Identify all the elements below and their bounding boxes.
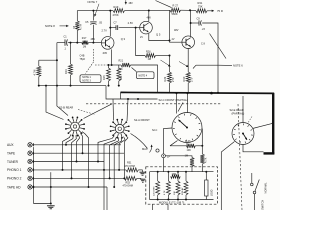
svg-text:NOTE 3: NOTE 3 — [82, 79, 91, 82]
wire S2-A curve right — [131, 134, 148, 149]
junction S2-C bus a — [176, 92, 178, 94]
leader NOTE 7 — [94, 4, 99, 17]
junction module R2 — [167, 171, 169, 173]
capacitor C1 — [65, 39, 67, 45]
svg-text:1M: 1M — [148, 58, 151, 61]
wire Q5 emitter — [149, 34, 170, 41]
wire loudness bottom — [205, 196, 207, 200]
junction fan2-5 — [118, 169, 120, 171]
leader S2-B — [78, 110, 95, 115]
wire S2-A fan 5 — [119, 137, 125, 170]
wire ground link — [34, 203, 51, 205]
wire S2-C up b — [187, 93, 189, 112]
wire module R3 bottom — [177, 195, 179, 200]
junction Q3 coll-C7 — [109, 27, 111, 29]
wire R26 left — [136, 28, 145, 56]
wire LP down to module — [163, 158, 165, 172]
svg-text:R19: R19 — [114, 5, 119, 9]
junction module R4 — [185, 171, 187, 173]
resistor R51 470 OHM — [126, 168, 138, 172]
resistor R15 — [107, 68, 111, 81]
wire S2-A fan 4 — [114, 137, 122, 187]
arrow supply pointer — [125, 0, 127, 4]
junction fan2-1 — [97, 161, 99, 163]
svg-text:560: 560 — [119, 75, 123, 80]
svg-text:NOTE 4: NOTE 4 — [139, 75, 148, 78]
junction rail-C5 — [92, 10, 94, 12]
wire R16 top — [118, 65, 120, 68]
capacitor C5 — [90, 22, 96, 24]
wire module R4 bottom — [185, 195, 187, 200]
junction C5-base node — [92, 42, 94, 44]
resistor R29 — [168, 72, 172, 83]
svg-text:Q 3: Q 3 — [121, 37, 126, 41]
resistor R16 — [117, 68, 121, 81]
svg-text:2.7V: 2.7V — [102, 29, 108, 33]
junction R13 top — [70, 42, 72, 44]
wire to Q3 base — [88, 42, 101, 44]
wire input vertical — [56, 43, 58, 86]
svg-text:2V: 2V — [140, 36, 143, 39]
wire R16 bottom — [118, 81, 120, 86]
wire S2-B fan 4 — [77, 135, 80, 162]
wire C1 left lead — [57, 42, 65, 44]
leader NOTE 6 — [218, 64, 232, 66]
wire R15 bottom — [108, 81, 110, 86]
jack TAPE HD — [28, 185, 34, 189]
wire to R29 — [169, 56, 171, 73]
wire supply rail left — [77, 10, 113, 12]
junction rail x70 — [70, 85, 72, 87]
svg-text:R17: R17 — [82, 37, 87, 40]
wire jack ground column 2 — [50, 172, 52, 203]
junction fan1 — [62, 169, 64, 171]
svg-text:TAPE HD: TAPE HD — [7, 185, 21, 189]
svg-text:75K: 75K — [198, 5, 203, 9]
svg-text:R21: R21 — [119, 59, 124, 62]
svg-text:4.7M: 4.7M — [32, 70, 36, 76]
resistor R27 560K — [170, 8, 181, 12]
junction R16 rail — [118, 85, 120, 87]
svg-text:48V: 48V — [91, 38, 96, 41]
junction rail-Q7 collector — [189, 9, 191, 11]
junction sw2 up — [127, 98, 129, 100]
wire S2-B fan 6 — [82, 132, 88, 187]
junction R15 — [108, 64, 110, 66]
jack TAPE — [28, 151, 34, 155]
wire ground rail — [39, 85, 106, 87]
wire Q3 collector — [109, 11, 111, 37]
resistor R17 — [82, 41, 89, 45]
wire R45 bottom — [38, 77, 40, 86]
resistor module R1 — [156, 181, 160, 195]
leader S2-E — [248, 117, 253, 124]
junction rail-Q5 — [148, 10, 150, 12]
wire Q5 collector — [148, 11, 150, 22]
terminal LP — [162, 154, 166, 158]
wire NOTE 6 hook — [193, 65, 196, 68]
wire R-43 left — [170, 145, 187, 147]
svg-text:.05: .05 — [99, 21, 103, 24]
wire S2-E to border — [253, 123, 273, 128]
svg-text:PHONO 2: PHONO 2 — [7, 177, 22, 181]
wire S2-C bottom contact — [186, 143, 188, 146]
wire C9 to bus — [202, 23, 218, 93]
switch S3 contacts — [251, 180, 260, 194]
junction fan2-4 — [113, 186, 115, 188]
leader arrow R30 — [179, 62, 189, 68]
wire R27 feedback vertical — [169, 10, 171, 40]
junction ground — [50, 203, 52, 205]
svg-text:R31: R31 — [198, 1, 203, 5]
wire switch down — [254, 194, 256, 210]
junction fan2-2 — [103, 169, 105, 171]
wire module bottom rail — [150, 199, 214, 201]
resistor R5 — [75, 21, 79, 31]
resistor R53 470 OHM — [124, 176, 136, 180]
junction ground row b — [33, 186, 35, 188]
svg-text:48V: 48V — [174, 29, 179, 32]
wire S2-A fan 3 — [110, 137, 119, 178]
junction R-43 — [201, 145, 203, 147]
wire R21 to bus corner — [131, 65, 158, 92]
wire row AUX — [32, 144, 121, 146]
note box 2 — [137, 72, 155, 79]
transistor Q7 — [182, 36, 195, 49]
svg-text:4.7K: 4.7K — [164, 190, 166, 195]
wire S2-B fan 1 — [63, 134, 72, 170]
junction Q3 emitter — [111, 64, 113, 66]
junction fan5 — [82, 152, 84, 154]
wire C5 top lead — [92, 11, 94, 21]
wire to S2-B contact a — [46, 86, 64, 120]
leader S2-C — [178, 103, 183, 112]
wire row TAPE — [32, 152, 124, 154]
wire C5 bottom lead — [92, 25, 94, 43]
module dashed box — [146, 167, 218, 204]
resistor module R4 — [184, 181, 188, 195]
svg-text:1M: 1M — [83, 46, 86, 49]
junction rail-Q3 — [109, 10, 111, 12]
wire S2-A fan 6 — [124, 135, 128, 178]
wire S2-A fan 2 — [104, 137, 116, 210]
dashed wire C4B — [95, 64, 112, 66]
wire R5 top lead — [76, 11, 78, 21]
wire module top rail — [150, 171, 214, 173]
loudness pot — [205, 180, 208, 196]
wire row PHONO 1 — [32, 169, 126, 171]
arrow NOTE 8 — [60, 25, 69, 27]
junction fan2-6 — [123, 177, 125, 179]
wire R1M into module — [191, 167, 193, 172]
diagonal leader Q7 — [210, 34, 227, 59]
svg-text:S2-A FRONT: S2-A FRONT — [134, 118, 150, 122]
svg-text:MODULE (TC-108 ?): MODULE (TC-108 ?) — [159, 201, 184, 205]
resistor R45 4.7K — [200, 154, 204, 164]
wire S2-C up a — [176, 93, 178, 113]
svg-text:2.5V: 2.5V — [128, 21, 134, 25]
wire NOTE 6 stub — [196, 64, 218, 66]
wire Q3 emitter — [111, 49, 113, 65]
resistor R21 4.7K — [121, 63, 131, 67]
svg-text:220 OHM: 220 OHM — [154, 186, 156, 196]
svg-text:R13: R13 — [64, 69, 68, 74]
junction loudness top — [205, 171, 207, 173]
dashed leader C4B — [86, 49, 94, 74]
wire R45 tee — [39, 59, 57, 61]
svg-text:75pF: 75pF — [80, 58, 86, 61]
jack AUX — [28, 143, 34, 147]
leader note box 2 — [132, 68, 137, 72]
junction module R3 — [177, 171, 179, 173]
resistor R 1M module — [190, 158, 194, 167]
note box 1 — [80, 75, 101, 83]
svg-text:NOTE 6: NOTE 6 — [233, 63, 243, 67]
wire R-43 diag — [170, 141, 178, 146]
wire LP to S2-C — [164, 128, 173, 154]
dashed gang linkage — [86, 103, 222, 105]
svg-text:AUX: AUX — [7, 143, 14, 147]
wire S2-A up b — [127, 99, 128, 121]
svg-text:4V: 4V — [172, 38, 175, 41]
svg-text:LOUD: LOUD — [211, 189, 213, 196]
svg-text:NOTE 8: NOTE 8 — [45, 24, 55, 28]
svg-text:48V: 48V — [129, 2, 134, 5]
transistor Q5 — [140, 21, 153, 34]
svg-text:R30: R30 — [182, 76, 186, 81]
resistor R45 1M — [37, 66, 41, 77]
svg-text:NOTE 7: NOTE 7 — [88, 0, 98, 4]
svg-text:4.7K: 4.7K — [204, 157, 208, 163]
junction tee — [56, 59, 58, 61]
wire S2-B fan 2 — [66, 135, 73, 145]
rotary switch S2-B REAR — [65, 117, 85, 137]
rotary switch S2-C — [172, 113, 202, 143]
junction S2-C bus b — [187, 92, 189, 94]
wire switch up — [251, 173, 253, 183]
junction emitter node — [169, 40, 171, 42]
wire module R3 top — [177, 172, 179, 181]
wire S2-B fan 3 — [72, 135, 77, 178]
wire ground drop — [106, 86, 158, 99]
wire Q7 collector — [190, 10, 192, 36]
wire R51 gnd stem — [142, 170, 144, 172]
junction border — [272, 122, 274, 124]
resistor R31 — [196, 9, 207, 13]
svg-text:1M: 1M — [185, 155, 188, 158]
wire rail to R31 — [181, 9, 197, 11]
junction Q5 base-R26 — [135, 27, 137, 29]
wire R15 top — [108, 65, 110, 68]
junction R5-C1 node — [76, 42, 78, 44]
transistor Q3 — [101, 37, 114, 50]
wire module exit 1 — [152, 204, 154, 210]
wire module R1 bottom — [157, 195, 159, 200]
svg-text:S2-E REAR: S2-E REAR — [230, 108, 244, 112]
junction R45-rail — [38, 85, 40, 87]
svg-text:TAPE: TAPE — [7, 152, 15, 156]
svg-text:C 8: C 8 — [201, 42, 206, 45]
wire loudness top — [205, 172, 207, 180]
junction module R4 btm — [185, 199, 187, 201]
junction fan3 — [71, 177, 73, 179]
junction ground row — [50, 186, 52, 188]
svg-text:R29: R29 — [163, 76, 167, 81]
wire S2-B diagonal — [84, 104, 113, 119]
rotary switch S2-E — [232, 123, 254, 145]
wire S2-A fan 1 — [98, 136, 114, 162]
svg-text:470-OHM: 470-OHM — [123, 185, 133, 188]
junction sw2 up b — [137, 98, 139, 100]
resistor module 1M horizontal — [171, 175, 181, 179]
wire S2-A up a — [112, 99, 115, 121]
junction R15 rail — [108, 85, 110, 87]
wire R45 to module — [201, 164, 203, 172]
wire R53 to gnd — [137, 177, 141, 179]
resistor module R3 — [176, 181, 180, 195]
wire jack ground column — [33, 147, 35, 203]
wire row TUNER — [32, 161, 104, 163]
wire module R4 top — [185, 172, 187, 181]
wire supply rail mid — [125, 9, 171, 11]
resistor R19 470K — [113, 9, 125, 13]
wire to S2-B contact b — [57, 86, 68, 116]
junction module R2 btm — [167, 199, 169, 201]
wire to R21 — [112, 64, 121, 66]
wire R13 bottom — [70, 75, 72, 86]
junction fan6 — [88, 186, 90, 188]
wire module R1 top — [157, 172, 159, 181]
wire C1 to R17 — [68, 42, 82, 44]
svg-text:TUNER: TUNER — [7, 160, 19, 164]
svg-text:R15: R15 — [102, 75, 106, 80]
junction fan2 — [65, 144, 67, 146]
wire S2-E left down — [221, 142, 234, 211]
dashed linkage vertical — [238, 104, 242, 210]
wire Q7 emitter — [187, 49, 189, 73]
svg-text:75 R: 75 R — [217, 9, 223, 13]
junction output-bus — [217, 92, 219, 94]
svg-text:470K: 470K — [113, 13, 119, 17]
border heavy vertical — [272, 93, 274, 154]
leader arrow R29 — [161, 60, 171, 67]
svg-text:270: 270 — [190, 77, 194, 82]
jack PHONO 1 — [28, 168, 34, 172]
wire module R2 bottom — [167, 195, 169, 200]
arrow to next stage — [207, 10, 214, 12]
svg-text:560K: 560K — [172, 12, 178, 16]
svg-text:LP: LP — [167, 154, 170, 158]
svg-text:(PARTIAL): (PARTIAL) — [232, 112, 245, 116]
svg-text:10K: 10K — [187, 149, 192, 152]
svg-text:MGLAY: MGLAY — [181, 187, 184, 195]
svg-text:1KM: 1KM — [172, 174, 177, 176]
wire R53 gnd stem — [141, 177, 143, 180]
resistor R13 — [69, 64, 73, 75]
wire R45 top — [38, 60, 40, 66]
svg-text:Q 5: Q 5 — [156, 33, 161, 37]
wire module left rail — [149, 172, 151, 200]
svg-text:S2-C: S2-C — [152, 130, 158, 132]
svg-text:R26: R26 — [146, 50, 151, 53]
junction module R1 — [157, 171, 159, 173]
svg-text:S2-B REAR: S2-B REAR — [59, 106, 73, 110]
svg-text:NORMAL: NORMAL — [264, 182, 268, 194]
ground R51 — [139, 172, 145, 175]
junction module R3 btm — [177, 199, 179, 201]
capacitor C7 — [116, 25, 118, 30]
svg-text:PHONO 1: PHONO 1 — [7, 168, 22, 172]
capacitor C9 — [199, 20, 201, 25]
svg-text:S2-C FRONT (PARTIAL): S2-C FRONT (PARTIAL) — [159, 98, 189, 102]
svg-text:SWITCH: SWITCH — [261, 200, 265, 210]
svg-text:R-43: R-43 — [185, 140, 191, 143]
resistor R26 1M — [145, 54, 156, 58]
wire to C7 — [110, 27, 116, 29]
wire to C9 — [191, 22, 199, 24]
resistor R-43 10K — [187, 144, 196, 148]
wire S2-E up — [242, 96, 244, 122]
resistor module R2 — [166, 181, 170, 195]
wire TAPE HD down — [106, 187, 108, 210]
resistor R30 — [186, 72, 190, 83]
wire row TAPE HD — [32, 186, 107, 188]
junction x46 — [45, 85, 47, 87]
junction R26-feedback — [169, 55, 171, 57]
wire S2-E down-right — [243, 145, 264, 152]
junction fan2-3 — [109, 177, 111, 179]
svg-text:R 27: R 27 — [173, 4, 179, 8]
junction rail x57 — [56, 85, 58, 87]
wire S2-B fan 5 — [80, 133, 82, 153]
jack TUNER — [28, 159, 34, 163]
junction bus big — [210, 92, 213, 95]
terminal MAX pot — [156, 149, 159, 152]
wire R-43 right — [195, 145, 202, 147]
wire LP to R 1M — [166, 156, 193, 158]
ground bus heavy — [121, 92, 275, 93]
rotary switch S2-A FRONT — [110, 119, 130, 139]
wire R30 to bus — [187, 83, 189, 93]
junction fan4 — [76, 161, 78, 163]
wire C7 to Q5 base — [119, 27, 140, 29]
wire R5 bottom lead — [76, 31, 78, 43]
pot wiper MAX — [150, 145, 152, 153]
wire module R2 top — [167, 172, 169, 181]
svg-text:4.7M: 4.7M — [79, 24, 83, 30]
wire bus step — [120, 92, 122, 99]
wire R26 right — [156, 55, 170, 57]
wire R13 top — [70, 43, 72, 64]
wire module exit 2 — [167, 204, 169, 210]
junction module R1 btm — [157, 199, 159, 201]
ground symbol input — [47, 206, 55, 209]
ground R53 — [140, 179, 145, 182]
jack PHONO 2 — [28, 176, 34, 180]
svg-text:10K: 10K — [174, 191, 176, 195]
svg-text:270: 270 — [171, 77, 175, 82]
wire R51 to gnd — [138, 169, 142, 171]
wire to Q7 base — [170, 41, 182, 43]
wire row PHONO 2 — [32, 177, 124, 179]
leader line to R27 — [156, 1, 172, 8]
svg-text:470 OHM: 470 OHM — [125, 165, 135, 168]
wire S2-C right down — [201, 129, 203, 155]
border heavy foot — [264, 152, 275, 154]
junction Q7-C9 — [190, 22, 192, 24]
wire R29 to bus — [169, 83, 171, 92]
svg-text:.005: .005 — [102, 52, 107, 55]
